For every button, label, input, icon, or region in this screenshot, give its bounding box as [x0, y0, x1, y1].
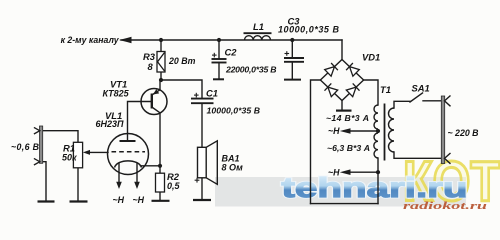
- svg-text:~0,6 В: ~0,6 В: [11, 142, 40, 152]
- tube VL1 grid: [112, 151, 146, 153]
- svg-text:8 Ом: 8 Ом: [222, 162, 244, 172]
- input pin top: [34, 127, 40, 134]
- svg-text:КТ825: КТ825: [103, 88, 130, 98]
- arrowhead heater tap 1: [340, 128, 351, 134]
- diode VD1.1 upper-left: [325, 63, 338, 76]
- arrow to 2nd channel: [119, 37, 132, 43]
- svg-text:20 Вт: 20 Вт: [168, 56, 196, 66]
- svg-text:~Н: ~Н: [113, 195, 125, 205]
- svg-text:22000,0*35 В: 22000,0*35 В: [225, 64, 277, 74]
- svg-text:L1: L1: [253, 21, 264, 32]
- ground C2: [213, 78, 224, 80]
- transformer T1 secondary winding lower: [374, 133, 378, 158]
- svg-text:~Н: ~Н: [133, 195, 145, 205]
- diode bridge VD1 frame: [320, 60, 363, 101]
- svg-text:C1: C1: [206, 88, 218, 99]
- input pin bottom: [34, 158, 40, 165]
- wire grid / R1 wiper: [89, 151, 108, 153]
- node dot rail C2: [217, 38, 221, 42]
- heater leg 1: [118, 163, 120, 182]
- wire top rail: [121, 39, 342, 41]
- svg-text:к 2-му каналу: к 2-му каналу: [61, 35, 120, 46]
- transistor VT1 emitter arrow: [153, 89, 159, 94]
- wire PSU bottom: [311, 203, 379, 205]
- capacitor C3 leads: [291, 40, 293, 58]
- svg-text:VD1: VD1: [362, 51, 380, 62]
- wire bridge right vertex to secondary: [364, 80, 378, 105]
- node dot rail C3: [290, 38, 294, 42]
- wire bridge bottom to ground: [341, 101, 343, 110]
- tube VL1 anode: [120, 140, 136, 142]
- ground R2: [152, 200, 170, 202]
- wire input top pin to R1: [43, 131, 78, 143]
- resistor R2: [156, 173, 165, 192]
- watermark KOT yellow letters: [403, 150, 500, 212]
- ground input: [38, 200, 55, 202]
- svg-text:tehnari.ru: tehnari.ru: [282, 172, 468, 203]
- svg-text:0,5: 0,5: [167, 181, 181, 191]
- svg-text:~Н: ~Н: [328, 167, 340, 177]
- svg-text:6Н23П: 6Н23П: [96, 119, 125, 129]
- node dot cathode: [158, 164, 162, 168]
- wire secondary top stub: [377, 129, 379, 133]
- diode VD1.3 lower-left: [325, 83, 338, 96]
- wire heater tap 2: [349, 171, 378, 173]
- ground BA1: [193, 199, 211, 201]
- tube VL1 cathode: [115, 161, 142, 168]
- speaker BA1 bottom lead: [201, 178, 203, 199]
- resistor R3: [157, 52, 165, 73]
- transistor VT1 collector lead down: [159, 113, 161, 173]
- wire primary top: [394, 101, 410, 108]
- svg-text:10000,0*35 В: 10000,0*35 В: [207, 106, 261, 116]
- wire bridge top drop: [341, 40, 343, 60]
- wire heater tap 1: [349, 130, 378, 132]
- svg-text:~6,3 В*3 А: ~6,3 В*3 А: [327, 143, 370, 153]
- resistor R1 bottom lead: [77, 168, 79, 200]
- resistor R3 leads: [160, 40, 162, 52]
- node dot tap 2: [376, 170, 380, 174]
- watermark grey band: [215, 177, 466, 207]
- heater arrow 1: [116, 182, 122, 189]
- capacitor C2 leads: [218, 40, 220, 59]
- input connector body: [40, 126, 43, 163]
- mains plug body: [441, 96, 444, 164]
- svg-text:SA1: SA1: [412, 82, 430, 93]
- transistor VT1 emitter lead: [159, 80, 161, 90]
- svg-text:~Н: ~Н: [328, 126, 340, 136]
- mains plug pin top: [445, 96, 451, 107]
- wire bridge left vertex to bottom: [311, 80, 321, 204]
- heater leg 2: [136, 163, 138, 182]
- diode VD1.4 lower-right: [346, 83, 359, 96]
- potentiometer R1 wiper arrow: [83, 150, 90, 155]
- svg-text:C2: C2: [225, 47, 238, 58]
- node dot collector: [159, 78, 163, 82]
- mains plug pin bottom: [445, 153, 451, 164]
- ground C3: [284, 79, 301, 81]
- tube VL1 envelope: [108, 134, 149, 175]
- svg-text:50к: 50к: [62, 152, 77, 162]
- transistor VT1 base wire from tube anode: [128, 102, 152, 142]
- transformer T1 secondary winding upper: [374, 105, 378, 129]
- svg-text:~ 220 В: ~ 220 В: [448, 128, 480, 138]
- svg-text:~14 В*3 А: ~14 В*3 А: [326, 113, 369, 123]
- node dot rail R3: [159, 38, 163, 42]
- potentiometer R1: [73, 142, 82, 168]
- wire collector node to C1: [161, 80, 202, 98]
- arrowhead heater tap 2: [340, 169, 351, 175]
- svg-text:T1: T1: [380, 84, 391, 95]
- svg-text:8: 8: [148, 61, 154, 72]
- wire primary bottom: [394, 152, 442, 158]
- ground bridge: [336, 109, 352, 111]
- capacitor C3: [284, 51, 304, 62]
- svg-text:10000,0*35 В: 10000,0*35 В: [278, 25, 340, 35]
- node dot tap 1: [376, 129, 380, 133]
- transistor VT1: [141, 89, 167, 115]
- transformer T1 primary winding: [389, 108, 394, 152]
- switch SA1 lever: [410, 93, 423, 102]
- resistor R2 bottom lead: [159, 192, 161, 199]
- ground R1: [70, 200, 88, 202]
- svg-text:radiokot.ru: radiokot.ru: [403, 201, 488, 212]
- speaker BA1: [195, 141, 218, 185]
- diode VD1.2 upper-right: [346, 63, 359, 76]
- capacitor C1: [191, 93, 214, 103]
- wire secondary lower: [377, 158, 379, 204]
- wire SA1 to plug: [423, 100, 442, 102]
- capacitor C2: [212, 53, 227, 63]
- wire cathode to collector line: [141, 165, 161, 167]
- capacitor C1 bottom lead to speaker: [201, 104, 203, 148]
- wire input bottom pin to ground: [43, 162, 46, 201]
- heater arrow 2: [134, 182, 140, 189]
- inductor L1: [244, 33, 272, 40]
- transformer T1 core: [384, 104, 386, 161]
